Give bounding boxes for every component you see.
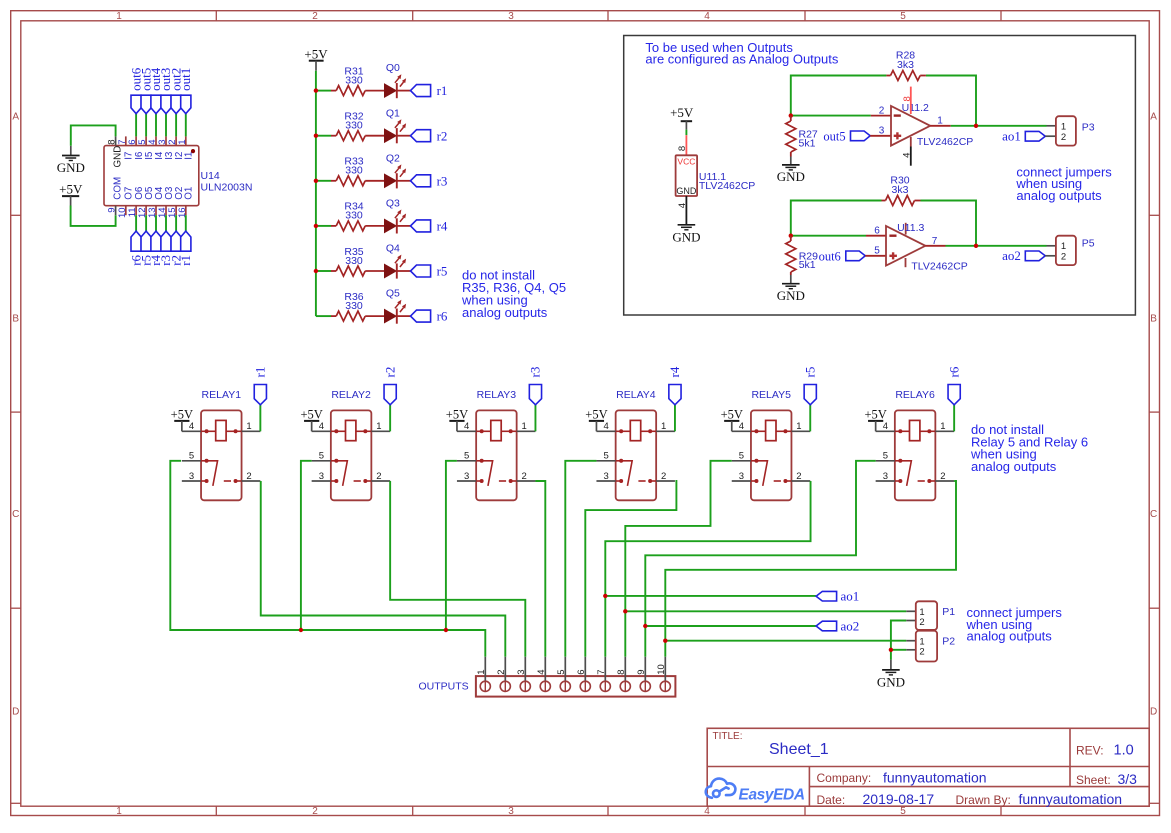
LED Q1 emission arrows (395, 123, 399, 128)
svg-text:3: 3 (508, 806, 514, 817)
relay RELAY5 (751, 410, 792, 500)
relay RELAY4 (616, 410, 657, 500)
svg-text:ao1: ao1 (1002, 128, 1021, 143)
svg-text:Sheet_1: Sheet_1 (769, 741, 829, 758)
svg-text:3: 3 (189, 471, 194, 482)
wire RELAY5 pin2 to output 7 (605, 481, 810, 657)
connector P1 (906, 610, 916, 612)
resistor R35 330 (331, 270, 336, 272)
OUTPUTS pin 2 (504, 657, 506, 681)
svg-text:Sheet:: Sheet: (1076, 773, 1111, 787)
netflag r3 (RELAY3) (534, 405, 536, 432)
svg-text:330: 330 (345, 120, 363, 132)
svg-text:C: C (1150, 509, 1157, 520)
svg-text:GND: GND (777, 288, 805, 303)
svg-text:8: 8 (902, 96, 913, 101)
svg-text:Q3: Q3 (386, 198, 400, 210)
svg-text:2: 2 (940, 471, 945, 482)
junction node U11.3 input (789, 234, 793, 238)
resistor R30 3k3 (882, 200, 886, 202)
wire P2 pin1 branch (665, 640, 906, 642)
svg-text:330: 330 (345, 300, 363, 312)
RELAY1 switch contacts (201, 461, 218, 486)
U11.1 pin 8 stub (685, 135, 687, 155)
svg-text:GND: GND (777, 169, 805, 184)
svg-text:OUTPUTS: OUTPUTS (419, 681, 469, 693)
svg-text:1: 1 (940, 421, 945, 432)
ground symbol (U14 GND net) (70, 146, 72, 156)
svg-text:RELAY4: RELAY4 (616, 389, 656, 401)
svg-text:r5: r5 (437, 264, 448, 279)
wire GND to U14 pin 8 (71, 125, 116, 145)
wire RELAY1 pin2 to output 2 (261, 481, 506, 657)
svg-text:1: 1 (376, 421, 381, 432)
netflag out1 (181, 95, 191, 114)
svg-text:5k1: 5k1 (799, 259, 816, 271)
svg-text:3: 3 (879, 126, 885, 137)
svg-text:RELAY3: RELAY3 (477, 389, 517, 401)
U11.3 power stubs (905, 223, 907, 235)
svg-text:5k1: 5k1 (799, 137, 816, 149)
svg-text:analog outputs: analog outputs (462, 305, 548, 320)
svg-text:4: 4 (739, 421, 744, 432)
ground symbol (R27) (790, 157, 792, 165)
svg-text:r6: r6 (437, 309, 448, 324)
U14 bottom pin stubs (9,10,...,16) (115, 206, 117, 216)
OUTPUTS pin 4 (544, 657, 546, 681)
wire feedback loop U11.2 (791, 76, 887, 116)
svg-text:ULN2003N: ULN2003N (201, 182, 253, 194)
netflag ao2 (near P5) (1025, 251, 1045, 261)
resistor R29 5k1 (790, 236, 792, 241)
svg-text:+5V: +5V (304, 47, 328, 62)
svg-text:r3: r3 (528, 367, 543, 378)
svg-text:B: B (1150, 314, 1157, 325)
OUTPUTS pin 8 (624, 657, 626, 681)
U11.3 pin 6 lead (866, 235, 886, 237)
svg-text:9: 9 (636, 670, 647, 675)
LED Q0 (385, 84, 397, 97)
resistor R34 330 (331, 225, 336, 227)
resistor R36 330 (331, 315, 336, 317)
svg-text:Q4: Q4 (386, 243, 400, 255)
svg-text:1: 1 (1061, 122, 1066, 133)
OUTPUTS pin 5 (564, 657, 566, 681)
RELAY1 coil (201, 430, 216, 432)
svg-text:U14: U14 (201, 170, 220, 182)
svg-text:3: 3 (739, 471, 744, 482)
netflag ao1 (bottom) (816, 591, 837, 601)
relay RELAY1 (201, 410, 242, 500)
svg-text:330: 330 (345, 210, 363, 222)
svg-text:P2: P2 (942, 636, 955, 648)
wire node to U11.2 pin 2 (791, 115, 871, 117)
netflag r1 (181, 231, 191, 251)
wire RELAY4 pin2 to output 6 (585, 481, 676, 657)
wire rail to R34 (316, 225, 331, 227)
wire +5V rail vertical (315, 71, 317, 316)
RELAY4 switch contacts (616, 461, 633, 486)
RELAY1 pin stubs (182, 430, 201, 432)
svg-text:COM: COM (113, 177, 124, 200)
LED Q4 emission arrows (395, 258, 399, 263)
svg-text:7: 7 (596, 670, 607, 675)
svg-text:TITLE:: TITLE: (713, 731, 743, 742)
svg-text:2: 2 (522, 471, 527, 482)
svg-text:RELAY2: RELAY2 (331, 389, 371, 401)
U11.2 pin 3 lead (870, 135, 891, 137)
svg-text:B: B (12, 314, 19, 325)
svg-text:are configured as Analog Outpu: are configured as Analog Outputs (645, 51, 838, 66)
U11.2 pin 8 stub (910, 87, 912, 114)
svg-text:REV:: REV: (1076, 744, 1104, 758)
svg-text:Q1: Q1 (386, 107, 400, 119)
svg-text:330: 330 (345, 165, 363, 177)
U11.2 pin 4 stub (910, 137, 912, 147)
RELAY2 switch contacts (331, 461, 348, 486)
wire RELAY3 pin5 joins output1 net (446, 461, 457, 630)
svg-text:8: 8 (616, 670, 627, 675)
svg-text:r4: r4 (437, 219, 448, 234)
svg-text:r1: r1 (178, 255, 193, 266)
svg-text:EasyEDA: EasyEDA (739, 786, 805, 803)
wire RELAY6 pin5 to output 9 (645, 461, 875, 657)
RELAY3 coil (476, 430, 491, 432)
relay RELAY3 (476, 410, 517, 500)
op-amp U11.1 power body (676, 155, 698, 196)
svg-text:1: 1 (476, 670, 487, 675)
U14 pin 1 marker dot (191, 149, 195, 153)
junction rail row 1 (314, 88, 318, 92)
svg-text:Q5: Q5 (386, 288, 400, 300)
wire RELAY1 pin5 to output 1 (170, 461, 485, 657)
U11.3 output lead pin 7 (925, 245, 945, 247)
U11.3 pin 5 lead (865, 255, 886, 257)
svg-text:r2: r2 (382, 367, 397, 378)
svg-text:5: 5 (189, 451, 194, 462)
resistor R32 330 (331, 135, 336, 137)
svg-text:4: 4 (704, 806, 710, 817)
svg-text:P5: P5 (1082, 237, 1095, 249)
title block outline (707, 728, 1149, 806)
svg-text:+5V: +5V (585, 407, 607, 421)
netflag r1 (LED row) (411, 85, 431, 97)
svg-text:5: 5 (464, 451, 469, 462)
svg-text:5: 5 (900, 806, 906, 817)
wire RELAY2 pin2 to output 3 (390, 481, 525, 657)
svg-text:funnyautomation: funnyautomation (1019, 791, 1123, 807)
netflag out5 (141, 95, 151, 114)
svg-text:4: 4 (883, 421, 888, 432)
junction rail row 4 (314, 224, 318, 228)
svg-text:2: 2 (796, 471, 801, 482)
netflag out4 (151, 95, 161, 114)
svg-text:ao2: ao2 (841, 618, 860, 633)
svg-text:GND: GND (113, 146, 124, 168)
svg-text:1: 1 (177, 139, 188, 144)
wire rail to R31 (316, 90, 331, 92)
svg-text:TLV2462CP: TLV2462CP (917, 136, 973, 148)
svg-text:Q0: Q0 (386, 62, 400, 74)
svg-text:+5V: +5V (670, 105, 694, 120)
svg-text:out6: out6 (819, 249, 841, 263)
svg-text:1: 1 (1061, 241, 1066, 252)
svg-text:3k3: 3k3 (897, 59, 914, 71)
svg-text:r1: r1 (437, 83, 448, 98)
svg-text:5: 5 (874, 246, 880, 257)
netflag r6 (LED row) (411, 310, 431, 322)
svg-text:4: 4 (464, 421, 469, 432)
ground symbol (R29) (790, 275, 792, 284)
RELAY6 pin stubs (876, 430, 895, 432)
U11.1 pin 4 stub (685, 196, 687, 224)
RELAY4 coil (616, 430, 631, 432)
svg-text:U11.2: U11.2 (902, 102, 929, 114)
svg-text:3: 3 (508, 11, 514, 22)
svg-text:4: 4 (901, 153, 912, 158)
svg-text:5: 5 (739, 451, 744, 462)
svg-text:+5V: +5V (59, 182, 83, 197)
RELAY6 switch contacts (895, 461, 912, 486)
RELAY2 pin stubs (312, 430, 331, 432)
wire U11.3 output to P5 (946, 245, 1047, 247)
svg-text:1: 1 (522, 421, 527, 432)
svg-text:1: 1 (937, 115, 943, 126)
svg-text:4: 4 (536, 670, 547, 675)
RELAY6 coil (895, 430, 910, 432)
wire U11.2 output to P3 (951, 125, 1047, 127)
svg-text:GND: GND (877, 675, 905, 690)
svg-text:D: D (1150, 707, 1157, 718)
resistor R28 3k3 (886, 75, 890, 77)
svg-text:funnyautomation: funnyautomation (883, 770, 987, 786)
netflag r4 (RELAY4) (674, 405, 676, 432)
svg-text:+5V: +5V (446, 407, 468, 421)
svg-text:2: 2 (312, 806, 318, 817)
svg-text:2: 2 (376, 471, 381, 482)
RELAY5 coil (751, 430, 766, 432)
netflag ao2 (bottom) (816, 621, 837, 631)
svg-text:2: 2 (496, 670, 507, 675)
OUTPUTS pin 7 (604, 657, 606, 681)
svg-text:analog outputs: analog outputs (1016, 188, 1102, 203)
LED Q4 (385, 264, 397, 277)
wire RELAY5 pin5 to output 8 (625, 461, 731, 657)
svg-text:r2: r2 (437, 128, 448, 143)
junction P2/output10 (663, 639, 667, 643)
wire ao2 branch (645, 625, 816, 627)
wire P1 pin1 branch (625, 610, 906, 612)
wire rail to R33 (316, 180, 331, 182)
svg-text:330: 330 (345, 74, 363, 86)
svg-text:Drawn By:: Drawn By: (956, 793, 1011, 807)
wire rail to R32 (316, 135, 331, 137)
svg-text:10: 10 (656, 664, 667, 675)
netflag r4 (151, 231, 161, 251)
OUTPUTS pin 1 (484, 657, 486, 681)
svg-text:P1: P1 (942, 606, 955, 618)
netflag r2 (171, 231, 181, 251)
OUTPUTS pin 3 (524, 657, 526, 681)
netflag r5 (141, 231, 151, 251)
wire P2 pin2 to GND (891, 649, 906, 651)
svg-text:5: 5 (319, 451, 324, 462)
svg-text:4: 4 (319, 421, 324, 432)
svg-text:2: 2 (1061, 252, 1066, 263)
netflag out3 (161, 95, 171, 114)
svg-text:TLV2462CP: TLV2462CP (699, 180, 755, 192)
junction U11.3 output (974, 244, 978, 248)
svg-text:5: 5 (883, 451, 888, 462)
svg-text:3: 3 (883, 471, 888, 482)
analog outputs enclosure box (624, 36, 1136, 316)
svg-text:1: 1 (661, 421, 666, 432)
OUTPUTS pin 6 (584, 657, 586, 681)
svg-text:U11.3: U11.3 (897, 222, 924, 234)
svg-text:D: D (12, 707, 19, 718)
svg-text:RELAY5: RELAY5 (751, 389, 791, 401)
ground symbol (U11.1) (678, 225, 696, 230)
RELAY5 switch contacts (751, 461, 768, 486)
svg-text:3/3: 3/3 (1118, 771, 1138, 787)
wire RELAY3 pin2 to output 4 (535, 481, 545, 657)
netflag r4 (LED row) (411, 220, 431, 232)
svg-text:1: 1 (116, 806, 122, 817)
netflag ao1 (near P3) (1025, 131, 1045, 141)
svg-text:TLV2462CP: TLV2462CP (911, 260, 967, 272)
svg-text:2: 2 (919, 617, 924, 628)
svg-text:GND: GND (676, 186, 697, 196)
LED Q5 emission arrows (395, 304, 399, 309)
wire rail to R36 (316, 315, 331, 317)
junction rail row 3 (314, 179, 318, 183)
junction P1/output8 (623, 609, 627, 613)
netflag r5 (LED row) (411, 265, 431, 277)
svg-text:2: 2 (1061, 132, 1066, 143)
svg-text:2: 2 (879, 106, 885, 117)
connector P3 (1047, 125, 1056, 127)
svg-text:3: 3 (604, 471, 609, 482)
wire rail to R35 (316, 270, 331, 272)
junction ao1/output7 (603, 594, 607, 598)
junction ao2/output9 (643, 624, 647, 628)
svg-text:+5V: +5V (721, 407, 743, 421)
svg-text:6: 6 (874, 226, 880, 237)
svg-text:2: 2 (919, 647, 924, 658)
svg-text:r1: r1 (253, 367, 268, 378)
U11.2 output lead pin 1 (930, 125, 951, 127)
resistor R33 330 (331, 180, 336, 182)
IC U14 body (104, 146, 199, 206)
svg-text:I1: I1 (184, 152, 195, 160)
svg-text:2: 2 (661, 471, 666, 482)
netflag out6 (131, 95, 141, 114)
svg-text:O1: O1 (184, 187, 195, 200)
netflag r2 (RELAY2) (389, 405, 391, 432)
svg-text:RELAY6: RELAY6 (895, 389, 935, 401)
op-amp U11.2 (891, 106, 930, 146)
junction P2.2/GND (889, 648, 893, 652)
svg-text:5: 5 (556, 670, 567, 675)
wire ao1 branch (605, 595, 816, 597)
junction U11.2 output (974, 124, 978, 128)
svg-text:1.0: 1.0 (1114, 743, 1134, 759)
svg-text:1: 1 (116, 11, 122, 22)
svg-text:Company:: Company: (817, 771, 872, 785)
svg-text:5: 5 (604, 451, 609, 462)
U11.2 pin 2 lead (871, 115, 891, 117)
svg-text:2: 2 (246, 471, 251, 482)
RELAY2 coil (331, 430, 346, 432)
RELAY5 pin stubs (732, 430, 751, 432)
svg-text:4: 4 (604, 421, 609, 432)
svg-text:RELAY1: RELAY1 (202, 389, 242, 401)
svg-text:VCC: VCC (677, 157, 695, 167)
RELAY3 switch contacts (476, 461, 493, 486)
EasyEDA logo cloud (706, 779, 736, 798)
OUTPUTS pin 9 (644, 657, 646, 681)
svg-text:5: 5 (900, 11, 906, 22)
LED Q3 (385, 219, 397, 232)
svg-text:out5: out5 (823, 129, 845, 143)
LED Q5 (385, 310, 397, 323)
relay RELAY6 (895, 410, 936, 500)
netflag out5 (851, 131, 871, 141)
svg-text:4: 4 (704, 11, 710, 22)
svg-text:1: 1 (796, 421, 801, 432)
svg-text:3: 3 (319, 471, 324, 482)
wire +5V to U11.1 pin 8 (685, 130, 687, 136)
LED Q1 (385, 129, 397, 142)
wires U14 pins 6-1 to out flags (135, 114, 137, 137)
svg-text:analog outputs: analog outputs (971, 459, 1057, 474)
netflag out6 (846, 251, 866, 261)
wire node to U11.3 pin 6 (791, 235, 866, 237)
svg-text:r5: r5 (802, 367, 817, 378)
junction rail row 5 (314, 269, 318, 273)
svg-text:ao2: ao2 (1002, 248, 1021, 263)
wires U14 pins 11-16 to r flags (135, 215, 137, 231)
netflag r3 (LED row) (411, 175, 431, 187)
netflag r1 (RELAY1) (259, 405, 261, 432)
RELAY3 pin stubs (457, 430, 476, 432)
svg-text:+5V: +5V (300, 407, 322, 421)
svg-text:2: 2 (312, 11, 318, 22)
connector P2 (906, 640, 916, 642)
LED Q3 emission arrows (395, 213, 399, 218)
frame top ruler ticks (215, 11, 217, 21)
frame right ruler ticks (1149, 214, 1159, 216)
netflag out2 (171, 95, 181, 114)
svg-text:A: A (12, 111, 19, 122)
svg-text:GND: GND (672, 230, 700, 245)
svg-text:1: 1 (246, 421, 251, 432)
svg-text:3: 3 (464, 471, 469, 482)
junction node U11.2 input (789, 113, 793, 117)
svg-text:3: 3 (516, 670, 527, 675)
svg-text:out1: out1 (178, 68, 193, 91)
svg-text:r3: r3 (437, 173, 448, 188)
LED Q0 emission arrows (395, 78, 399, 83)
svg-text:r6: r6 (946, 366, 961, 377)
svg-text:C: C (12, 509, 19, 520)
ground symbol (P1/P2) (890, 660, 892, 670)
svg-text:GND: GND (57, 160, 85, 175)
wire RELAY6 pin2 to output 10 (665, 481, 956, 657)
LED Q2 emission arrows (395, 168, 399, 173)
svg-text:3k3: 3k3 (892, 184, 909, 196)
connector P5 (1047, 245, 1056, 247)
